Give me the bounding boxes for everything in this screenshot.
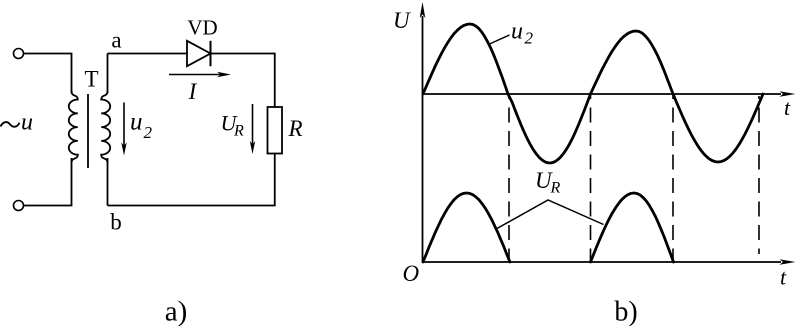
diode VD [187,41,211,66]
terminal (AC input, bottom-left) [14,201,24,211]
dashed line at t1 [508,96,510,262]
svg-text:2: 2 [144,123,153,142]
wire primary top [24,54,72,94]
resistor R [268,107,283,154]
svg-text:u: u [21,110,33,136]
svg-text:u: u [511,19,523,45]
waveform UR rectified hump 2 [591,193,674,262]
dashed line at t4 [758,96,760,254]
dashed line at t3 [672,96,674,262]
terminal (AC input, top-left) [14,49,24,59]
waveform UR rectified hump 1 [423,193,510,262]
label ~u (AC source) [1,110,34,136]
svg-text:I: I [188,79,198,104]
svg-text:a: a [111,28,121,53]
svg-text:R: R [233,123,244,140]
svg-text:u: u [130,109,143,136]
wire primary bottom [24,158,72,206]
svg-text:b: b [110,210,122,235]
wire diode cathode to resistor R [211,54,275,108]
dashed line at t2 [590,96,592,262]
wire node a to diode anode [108,53,188,55]
svg-text:U: U [393,8,411,33]
voltage arrow UR [250,104,255,154]
svg-text:T: T [84,67,98,92]
svg-text:VD: VD [187,16,217,40]
t axis upper [423,91,796,97]
wire bottom node b to resistor [108,154,275,206]
svg-text:b): b) [614,297,637,326]
svg-text:a): a) [165,296,188,326]
svg-text:O: O [403,261,420,286]
leader line u2 [490,35,510,44]
voltage arrow u2 (secondary) [121,103,126,156]
svg-text:t: t [780,265,787,290]
U axis [420,2,426,262]
transformer T primary winding [69,91,78,163]
transformer T core [87,94,89,168]
waveform u2 sine curve [423,24,763,163]
wire secondary lead bottom [107,158,109,206]
leader lines UR [497,200,604,229]
transformer T secondary winding [101,91,110,163]
svg-text:R: R [550,180,561,197]
current arrow I [169,72,231,78]
t axis lower [423,259,796,265]
svg-text:t: t [784,95,791,120]
svg-text:R: R [288,116,303,141]
svg-text:2: 2 [525,29,534,48]
wire secondary lead top [107,54,109,94]
